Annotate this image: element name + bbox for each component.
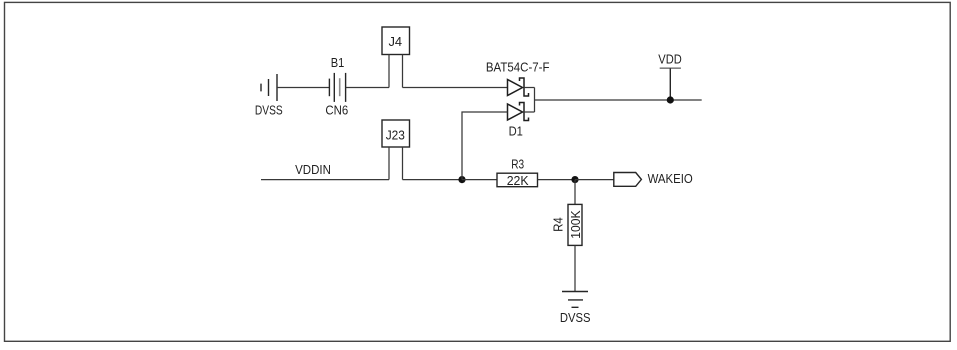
svg-text:R4: R4	[551, 217, 566, 232]
wire J4 pin 2 to D1 top anode	[403, 87, 508, 89]
svg-text:R3: R3	[511, 157, 524, 172]
J23 pin 1	[388, 147, 390, 180]
svg-text:DVSS: DVSS	[560, 310, 591, 325]
svg-text:DVSS: DVSS	[255, 102, 283, 117]
resistor R4	[568, 204, 582, 245]
J4 pin 1	[388, 55, 390, 88]
battery B1 / CN6	[329, 73, 345, 102]
junction B	[571, 176, 578, 183]
diode D1 top (schottky)	[508, 78, 529, 96]
wire D1 output to right stub	[535, 99, 702, 101]
svg-text:BAT54C-7-F: BAT54C-7-F	[486, 59, 550, 74]
wire R3 to junction B	[538, 179, 576, 181]
svg-text:B1: B1	[331, 55, 345, 70]
svg-text:CN6: CN6	[325, 102, 348, 117]
J4 pin 2	[402, 55, 404, 88]
svg-text:J4: J4	[389, 34, 403, 49]
wire junction A to R3	[462, 179, 497, 181]
wire junction B to WAKEIO port	[575, 179, 614, 181]
wire battery to J4 pin 1	[346, 87, 389, 89]
wire D1 top cathode to bus	[524, 87, 535, 89]
junction A	[458, 176, 465, 183]
wire junction A up to D1 bottom anode	[462, 112, 508, 180]
resistor R3	[497, 173, 538, 187]
ground DVSS (bottom)	[562, 292, 588, 308]
power VDD	[660, 68, 681, 100]
D1 cathode bus	[534, 88, 536, 113]
diode D1 bottom (schottky)	[508, 103, 529, 121]
wire junction B down to R4	[574, 180, 576, 205]
ground DVSS (left)	[261, 74, 277, 101]
svg-text:D1: D1	[509, 123, 523, 138]
wire J23 pin 2 to junction A	[403, 179, 463, 181]
wire R4 to ground	[574, 246, 576, 292]
svg-text:WAKEIO: WAKEIO	[648, 171, 693, 186]
svg-text:VDDIN: VDDIN	[295, 162, 331, 177]
port WAKEIO flag	[614, 173, 642, 187]
junction at VDD	[667, 96, 674, 103]
svg-text:100K: 100K	[568, 210, 583, 239]
svg-text:VDD: VDD	[658, 51, 682, 66]
connector J23	[382, 120, 410, 147]
wire D1 bottom cathode to bus	[524, 111, 535, 113]
connector J4	[382, 27, 410, 55]
svg-text:J23: J23	[386, 128, 405, 143]
svg-text:22K: 22K	[507, 173, 529, 188]
J23 pin 2	[402, 147, 404, 180]
wire VDDIN to J23 pin 1	[261, 179, 389, 181]
wire ground to battery	[277, 87, 329, 89]
